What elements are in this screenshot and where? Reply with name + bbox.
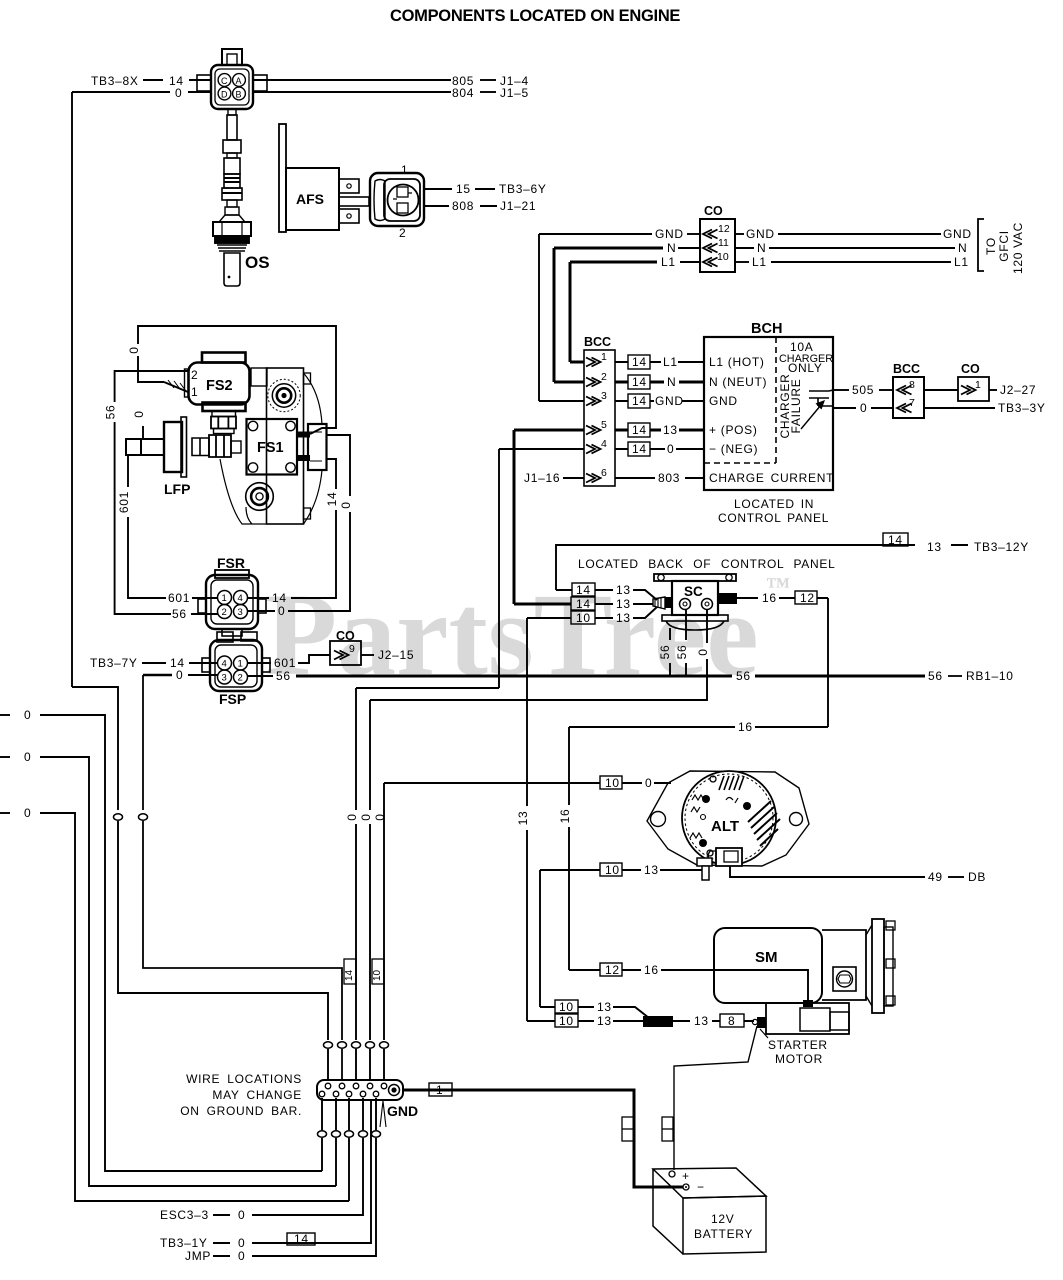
svg-text:13: 13 [597,1000,612,1014]
svg-text:6: 6 [601,467,607,479]
svg-text:0: 0 [238,1249,245,1263]
alternator ALT mounting plate [647,771,809,866]
svg-text:J1–16: J1–16 [524,471,560,485]
svg-text:CO: CO [704,204,723,218]
pin 2 chevron [586,378,601,387]
svg-text:14: 14 [576,583,591,597]
wire 0 from BCC pin4 to bar with marker 14 [355,688,357,810]
svg-text:16: 16 [558,809,572,824]
svg-text:L1 (HOT): L1 (HOT) [709,355,765,369]
svg-text:N: N [667,375,676,389]
svg-text:505: 505 [852,383,874,397]
wire 0 stub row 2 [0,756,10,758]
svg-text:0: 0 [860,401,867,415]
svg-text:+: + [682,1169,690,1183]
svg-text:J2–15: J2–15 [378,648,414,662]
svg-text:OS: OS [245,253,270,272]
wire 0 to ALT (top) [384,782,671,784]
svg-text:120 VAC: 120 VAC [1011,222,1025,274]
svg-text:8: 8 [909,379,915,391]
svg-text:AFS: AFS [296,191,324,207]
wire 0 to TB3-3Y [924,407,995,409]
splice [643,1016,673,1027]
low fuel pressure switch LFP [126,439,164,455]
svg-text:0: 0 [696,648,710,655]
svg-text:16: 16 [738,720,753,734]
svg-text:RB1–10: RB1–10 [966,669,1014,683]
svg-text:L1: L1 [663,355,678,369]
svg-text:2: 2 [238,673,243,684]
svg-text:GND: GND [943,227,972,241]
wire 13 row3 into SC [527,617,613,619]
svg-text:1: 1 [436,1083,443,1097]
svg-text:14: 14 [632,423,647,437]
svg-text:10: 10 [372,969,383,981]
wire 13 pin5 [514,429,584,432]
node WIRE LOCATIONS MAY CHANGE ON GROUND BAR. [180,1072,302,1118]
svg-text:0: 0 [373,813,387,820]
svg-text:13: 13 [694,1014,709,1028]
svg-text:0: 0 [238,1208,245,1222]
svg-text:TB3–12Y: TB3–12Y [974,540,1029,554]
svg-text:56: 56 [276,669,291,683]
svg-text:FSP: FSP [219,691,246,707]
svg-text:1: 1 [975,379,981,391]
svg-text:7: 7 [909,397,915,409]
svg-text:− (NEG): − (NEG) [709,442,758,456]
svg-text:TB3–3Y: TB3–3Y [998,401,1046,415]
svg-text:1: 1 [222,593,227,604]
coil squiggles [690,795,704,838]
wire 0 to TB3-1Y with marker 14 [252,1100,371,1243]
bolts [702,795,710,803]
starter solenoid [766,1003,849,1034]
svg-text:J1–5: J1–5 [500,86,529,100]
svg-text:0: 0 [176,668,183,682]
wire L1 left [570,261,657,264]
wire GND pin3 [539,400,584,402]
svg-text:14: 14 [272,591,287,605]
svg-text:4: 4 [601,438,607,450]
svg-text:DB: DB [968,870,986,884]
wire N left [554,247,663,250]
svg-text:13: 13 [927,540,942,554]
svg-text:1: 1 [401,163,408,177]
svg-text:ONLY: ONLY [788,361,823,375]
svg-text:56: 56 [104,405,118,420]
wire 14 out of FSR [247,597,269,599]
ALT stud terminal [697,858,712,866]
svg-text:14: 14 [632,355,647,369]
svg-text:0: 0 [24,750,31,764]
svg-text:56: 56 [736,669,751,683]
svg-text:0: 0 [127,346,141,353]
svg-text:15: 15 [456,182,471,196]
svg-text:14: 14 [632,394,647,408]
wire 49 DB from ALT connector [730,866,925,877]
ground bar GND [317,1080,403,1100]
wire 0 pin4 [499,448,584,450]
svg-text:N: N [958,241,967,255]
battery negative cable [403,1090,683,1187]
svg-text:56: 56 [172,607,187,621]
capacitor (charger failure) [809,390,833,408]
wire 13 vertical to SC [513,430,516,604]
svg-text:BCC: BCC [893,362,920,376]
svg-text:14: 14 [576,597,591,611]
wire 0 row to J1-5 [72,91,170,93]
svg-text:601: 601 [168,591,190,605]
svg-text:CO: CO [961,362,980,376]
wire 0 stub row 1 [0,714,10,716]
svg-text:0: 0 [667,442,674,456]
svg-text:9: 9 [349,643,355,655]
wire N pin2 [554,381,584,384]
svg-text:0: 0 [175,86,182,100]
svg-text:L1: L1 [661,255,676,269]
wire 0 from BCC pin4 to ground bar run [356,687,499,689]
svg-text:804: 804 [452,86,474,100]
svg-text:LOCATED BACK OF CONTROL PANEL: LOCATED BACK OF CONTROL PANEL [578,557,835,571]
wire 0 stub at LFP [142,426,144,438]
wire 0 [833,407,856,409]
pin 6 chevron [586,474,601,483]
wire 56 (FS2 pin2 down to FSR) [115,371,188,402]
svg-text:3: 3 [601,390,607,402]
wire GND left [539,233,652,235]
svg-text:10: 10 [559,1000,574,1014]
svg-text:J2–27: J2–27 [1000,383,1036,397]
svg-text:8: 8 [728,1014,735,1028]
svg-text:GND: GND [709,394,738,408]
wire 13 row2 into SC [514,603,571,606]
svg-text:12: 12 [605,963,620,977]
svg-text:N (NEUT): N (NEUT) [709,375,767,389]
svg-text:1: 1 [191,385,198,399]
svg-text:16: 16 [762,591,777,605]
wire 13 row B (from SC) [527,1020,594,1022]
svg-text:N: N [757,241,766,255]
relay AFS bracket [279,124,286,232]
svg-text:13: 13 [663,423,678,437]
svg-text:10: 10 [559,1014,574,1028]
svg-text:N: N [667,241,676,255]
svg-text:MAY CHANGE: MAY CHANGE [212,1088,302,1102]
svg-text:TB3–1Y: TB3–1Y [160,1236,208,1250]
fuel regulator FS1 body [251,368,267,386]
svg-text:ALT: ALT [711,818,739,835]
wire 0 from ALT to bar with marker 10 [383,810,385,824]
wire 0 from FSP run to bar [337,968,342,1040]
svg-text:0: 0 [645,776,652,790]
svg-text:56: 56 [675,645,689,660]
svg-text:2: 2 [399,226,406,240]
wire 0 (FS1 upper blade to FSR pin3) [327,435,350,496]
svg-text:14: 14 [344,969,355,981]
pin 11 chevron [703,244,718,253]
svg-text:3: 3 [238,607,243,618]
svg-text:0: 0 [24,806,31,820]
pin 7 chevron [897,404,912,413]
svg-text:CHARGE CURRENT: CHARGE CURRENT [709,471,834,485]
svg-text:0: 0 [278,604,285,618]
svg-text:SM: SM [755,949,778,966]
wire to J2-15 [361,654,374,656]
wire 0 from SC to bar [369,700,371,810]
AFS terminal tab upper [339,179,359,193]
svg-text:GFCI: GFCI [997,230,1011,261]
svg-text:0: 0 [24,708,31,722]
wire 56 from SC coil [685,610,687,640]
svg-text:13: 13 [516,811,530,826]
svg-text:FSR: FSR [217,555,245,571]
wire 505 [833,389,849,391]
wire 0 vertical from pin4 [498,449,500,688]
svg-text:JMP: JMP [185,1249,211,1263]
svg-text:GND: GND [655,394,684,408]
wire GND right [735,233,744,235]
svg-text:BATTERY: BATTERY [694,1227,753,1241]
svg-text:13: 13 [616,597,631,611]
vents right [748,801,780,846]
svg-text:TO: TO [984,237,998,255]
svg-text:LOCATED IN: LOCATED IN [734,497,814,511]
pin 5 chevron [586,426,601,435]
svg-text:FS1: FS1 [257,440,284,456]
wire 0 into FSP [143,674,172,677]
wire from bar to stub rows [321,1098,323,1130]
wire 0 ALT vertical to ground bar [383,783,385,810]
svg-text:0: 0 [345,813,359,820]
svg-text:J1–21: J1–21 [500,199,536,213]
svg-text:GND: GND [387,1103,418,1119]
svg-text:56: 56 [928,669,943,683]
svg-text:FAILURE: FAILURE [789,379,803,434]
svg-text:WIRE LOCATIONS: WIRE LOCATIONS [186,1072,302,1086]
wire 601 (LFP to FSR pin1) [127,455,129,487]
svg-text:601: 601 [117,491,131,513]
pin 3 chevron [586,397,601,406]
svg-text:BCC: BCC [584,335,611,349]
svg-text:2: 2 [601,371,607,383]
wire 13 to ALT stud [540,869,702,871]
wire 808 to J1-21 [424,205,449,207]
svg-text:TB3–7Y: TB3–7Y [90,656,138,670]
wire 16 from SC to right [737,597,758,599]
OS connector [222,49,242,65]
svg-text:11: 11 [718,237,729,249]
svg-text:13: 13 [616,611,631,625]
OS sensor body [228,109,236,115]
battery positive cable [674,1026,757,1170]
pin 1 chevron [586,358,601,367]
alternator body [682,771,776,865]
wire 15 to TB3-6Y [424,188,452,190]
bracket TO GFCI [978,219,984,271]
svg-text:10: 10 [605,776,620,790]
FS1 connector [308,424,327,470]
svg-text:14: 14 [294,1232,309,1246]
svg-text:14: 14 [632,375,647,389]
svg-text:1: 1 [238,659,243,670]
wire L1 right [735,261,749,263]
pin 12 chevron [703,230,718,239]
svg-text:14: 14 [325,492,339,507]
svg-text:3: 3 [222,673,227,684]
svg-text:GND: GND [746,227,775,241]
svg-text:D: D [221,90,228,100]
svg-text:10: 10 [576,611,591,625]
svg-text:2: 2 [222,607,227,618]
wire 13 row1 into SC [556,589,613,591]
svg-text:FS2: FS2 [206,378,233,394]
wire L1 pin1 [570,361,584,364]
svg-text:12: 12 [718,223,730,235]
svg-text:0: 0 [359,813,373,820]
relay AFS body [286,168,339,230]
wire 56 out of FSP to RB1-10 [247,675,273,677]
node TO GFCI 120 VAC [984,222,1025,274]
wire 0 left vertical from TB3-8X row down [71,92,73,687]
svg-text:L1: L1 [752,255,767,269]
wire 13 from SC to TB3-12Y [556,545,915,590]
pin 1 chevron [961,386,976,395]
svg-text:TB3–8X: TB3–8X [91,74,139,88]
svg-text:0: 0 [238,1236,245,1250]
svg-text:0: 0 [339,501,353,508]
wire 601 out of FSP to CO [247,662,271,664]
ALT connector [716,848,742,866]
svg-text:803: 803 [658,471,680,485]
wire 16 horizontal run [569,726,735,728]
svg-text:STARTER: STARTER [768,1038,828,1052]
svg-text:TB3–6Y: TB3–6Y [499,182,547,196]
svg-text:1: 1 [601,351,607,363]
wire N right [735,247,754,249]
svg-text:ON GROUND BAR.: ON GROUND BAR. [180,1104,302,1118]
connector at AFS [370,173,424,226]
svg-text:B: B [236,90,242,100]
wire 505 to J2-27 [924,389,958,391]
svg-text:L1: L1 [954,255,969,269]
starter contactor SC [653,597,665,609]
pin 4 chevron [586,445,601,454]
svg-text:0: 0 [132,410,146,417]
svg-text:49: 49 [928,870,943,884]
wire 13 long vertical (SC row3 to starter) [526,618,528,806]
svg-text:+ (POS): + (POS) [709,423,758,437]
svg-text:10: 10 [717,251,729,263]
svg-text:56: 56 [658,645,672,660]
svg-text:−: − [697,1180,705,1194]
connector FSP [217,632,233,642]
svg-text:808: 808 [452,199,474,213]
svg-text:13: 13 [597,1014,612,1028]
svg-text:GND: GND [655,227,684,241]
starter motor SM body [714,928,822,1003]
svg-text:MOTOR: MOTOR [775,1052,823,1066]
svg-text:LFP: LFP [164,481,190,497]
svg-text:COMPONENTS LOCATED ON ENGINE: COMPONENTS LOCATED ON ENGINE [390,7,680,25]
svg-text:2: 2 [191,368,198,382]
svg-text:BCH: BCH [751,321,782,337]
AFS terminal tab lower [339,209,359,223]
vents top [719,776,744,790]
svg-text:601: 601 [274,656,296,670]
wire 0 stub row 3 [0,812,10,814]
watermark [265,569,790,700]
svg-text:14: 14 [632,442,647,456]
pin 10 chevron [703,258,718,267]
wire 0 from TB3-8X run to bar [72,687,118,810]
svg-text:4: 4 [238,593,243,604]
wire 0 out of FSR [247,610,275,612]
svg-text:5: 5 [601,419,607,431]
svg-text:CONTROL PANEL: CONTROL PANEL [718,511,829,525]
wire 0 to ESC3-3 [362,1098,364,1130]
svg-text:12V: 12V [711,1212,734,1226]
wire 16 into solenoid [569,970,808,1000]
svg-text:10: 10 [605,863,620,877]
wire 0 frame (FS2 pin1 to FS1 connector top) [138,326,336,434]
wire 14 (FS1 lower blade to FSR pin4) [327,459,336,489]
wire 0 from SC coil to ground bar run [706,610,708,643]
AFS terminal blade [339,197,369,206]
wire 56 from SC frame [669,628,671,640]
svg-text:16: 16 [644,963,659,977]
wire 0 to JMP [375,1098,377,1130]
svg-text:10A: 10A [790,340,813,354]
wire 13 row A (from ALT) [540,1006,594,1008]
svg-text:SC: SC [684,584,703,599]
svg-text:C: C [221,76,228,86]
svg-text:13: 13 [616,583,631,597]
svg-text:ESC3–3: ESC3–3 [160,1208,209,1222]
svg-text:12: 12 [800,591,815,605]
svg-text:4: 4 [222,659,227,670]
svg-text:13: 13 [644,863,659,877]
battery 12V [653,1168,766,1198]
wire 0 vertical from FSP to ground bar run [142,675,144,810]
svg-text:A: A [236,76,242,86]
svg-text:14: 14 [888,533,903,547]
pin 8 chevron [897,386,912,395]
SM flange [866,925,872,1006]
